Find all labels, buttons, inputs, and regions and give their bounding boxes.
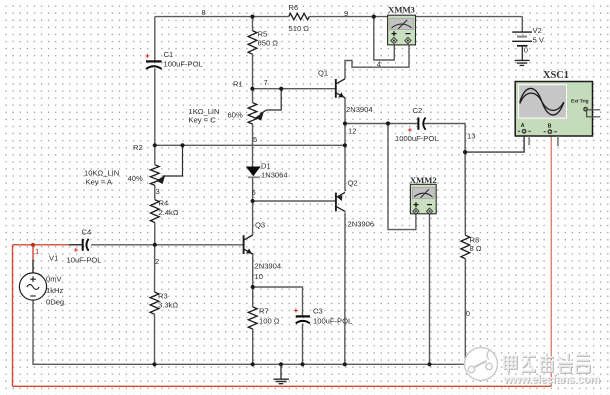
wire C3 bottom to bus [302, 324, 304, 365]
diode D1 1N3064 anode triangle [246, 167, 261, 177]
diode D1 cathode bar [248, 176, 260, 178]
svg-text:650 Ω: 650 Ω [258, 39, 279, 48]
svg-text:R6: R6 [289, 3, 299, 12]
svg-text:V1: V1 [49, 254, 58, 263]
wire node 13 to scope A [465, 134, 524, 153]
wire Q3 collector up to node 6 [252, 201, 254, 235]
source V1 circle [19, 273, 46, 300]
oscilloscope XSC1 channel A ground pin stub [528, 136, 530, 145]
svg-text:13: 13 [467, 132, 475, 141]
wire V2 top lead [521, 17, 523, 32]
oscilloscope XSC1 trace small [520, 93, 564, 110]
svg-text:1kHz: 1kHz [46, 286, 64, 295]
oscilloscope XSC1 ext trig stubs [586, 110, 601, 117]
battery V2 long plate 1 [512, 31, 532, 33]
multimeter XMM2 body [410, 184, 436, 214]
svg-text:10KΩ_LIN: 10KΩ_LIN [84, 169, 119, 178]
capacitor C4 curved plate [86, 239, 88, 251]
wire red right up to scope B [550, 134, 552, 387]
battery V2 long plate 2 [512, 40, 532, 42]
wire left branch C1 to R2 [154, 68, 156, 165]
transistor Q2 collector lead [337, 207, 345, 212]
wire D1 cathode to node 6 junction [252, 178, 254, 201]
svg-text:6: 6 [252, 188, 256, 197]
wire top rail node 8 right of R6 [309, 16, 522, 18]
potentiometer R2 wiper arrowhead [156, 175, 165, 184]
svg-text:7: 7 [264, 78, 268, 87]
oscilloscope XSC1 screen [519, 85, 567, 118]
oscilloscope XSC1 ext trig terminal [583, 107, 588, 112]
multimeter XMM2 plus terminal [413, 208, 419, 214]
svg-text:2N3904: 2N3904 [346, 105, 373, 114]
wire V1 top lead [32, 259, 34, 273]
wire Q2 collector down to bus [344, 212, 346, 364]
svg-text:100 Ω: 100 Ω [259, 317, 280, 326]
svg-text:C3: C3 [313, 307, 323, 316]
junction bus at R7 [251, 362, 255, 366]
junction bus at C3 [300, 362, 304, 366]
svg-text:1N3064: 1N3064 [261, 171, 288, 180]
oscilloscope XSC1 channel B plus minus marks [544, 131, 557, 133]
svg-text:1: 1 [35, 247, 39, 256]
svg-text:Q2: Q2 [348, 179, 358, 188]
oscilloscope XSC1 channel A terminal [522, 129, 527, 134]
wire left branch x155 top to C1 [154, 17, 156, 62]
wire R5 branch top lead [252, 17, 254, 31]
svg-text:2.4kΩ: 2.4kΩ [159, 208, 179, 217]
source V1 plus mark [30, 276, 36, 282]
wire node 12 rail to C2 [345, 123, 418, 125]
svg-text:10uF-POL: 10uF-POL [67, 256, 102, 265]
wire V1 bottom lead [32, 300, 34, 364]
svg-text:B: B [548, 124, 552, 130]
watermark logo circle [465, 348, 498, 381]
wire node 7 to Q1 base [252, 88, 335, 90]
svg-text:0Deg.: 0Deg. [46, 298, 66, 307]
svg-text:Q3: Q3 [255, 221, 265, 230]
svg-text:Key = C: Key = C [189, 116, 217, 125]
source V1 sine mark [27, 285, 39, 290]
wire XMM2 plus to node 12 [388, 124, 416, 230]
wire top rail node 8 [155, 16, 289, 18]
wire R1 bottom node 5 to D1 [252, 124, 254, 167]
svg-text:2N3906: 2N3906 [348, 220, 375, 229]
wire R2 feedback rail y145 [155, 144, 345, 146]
wire node 10 to C3 [253, 287, 303, 316]
multimeter XMM3 minus terminal [405, 37, 411, 43]
capacitor C2 1000uF-POL flat plate [417, 118, 419, 130]
oscilloscope XSC1 channel A plus minus marks [518, 130, 531, 132]
wire C4 to Q3 base [91, 244, 244, 246]
wire Q1 collector to XMM3 minus [345, 45, 409, 79]
wire red bottom run [13, 385, 552, 387]
junction node on top rail at R5 [250, 15, 254, 19]
junction bus at ground [279, 362, 283, 366]
junction node 2 C4 [153, 243, 157, 247]
ground symbol bottom center bars [274, 379, 289, 384]
wire ground bus [33, 363, 466, 365]
battery V2 short plate 2 [517, 45, 528, 47]
wire node 6 to Q2 base [253, 200, 336, 202]
svg-text:D1: D1 [261, 161, 271, 170]
transistor Q2 2N3906 base bar [335, 193, 337, 212]
svg-text:+: + [145, 51, 150, 60]
svg-text:Q1: Q1 [318, 69, 328, 78]
svg-text:8 Ω: 8 Ω [470, 244, 482, 253]
multimeter XMM3 minus mark [405, 33, 410, 35]
svg-text:8: 8 [202, 8, 206, 17]
junction node 10 [251, 285, 255, 289]
wire R5 to node 7 [252, 54, 254, 102]
resistor R4 2.4k [150, 200, 159, 223]
svg-text:Key = A: Key = A [86, 178, 113, 187]
junction node 6 [251, 199, 255, 203]
svg-text:A: A [521, 123, 525, 129]
capacitor C1 100uF-POL flat plate [146, 60, 162, 62]
junction red node 1 [31, 243, 35, 247]
multimeter XMM2 display [412, 187, 434, 198]
svg-text:R3: R3 [158, 292, 168, 301]
svg-text:12: 12 [348, 127, 356, 136]
svg-text:2: 2 [155, 257, 159, 266]
junction bus at R3 [152, 362, 156, 366]
multimeter XMM2 minus terminal [426, 208, 432, 214]
resistor R6 510 Ohm [289, 13, 310, 19]
svg-text:XMM3: XMM3 [388, 4, 415, 14]
wire node 9 to XMM3 plus [374, 17, 395, 60]
svg-text:100uF-POL: 100uF-POL [164, 59, 203, 68]
transistor Q3 emitter arrowhead [246, 249, 252, 254]
svg-text:4: 4 [377, 59, 381, 68]
oscilloscope XSC1 channel B terminal [548, 129, 553, 134]
svg-text:C4: C4 [82, 228, 92, 237]
svg-text:Ext Trig: Ext Trig [571, 99, 589, 105]
svg-text:R7: R7 [259, 307, 269, 316]
wire XMM2 minus to bus [429, 214, 431, 364]
battery V2 short plate 1 [517, 35, 527, 37]
potentiometer R2 10K_LIN [150, 165, 159, 186]
junction R2 rail left [153, 143, 157, 147]
svg-text:510 Ω: 510 Ω [289, 24, 310, 33]
svg-text:40%: 40% [128, 174, 143, 183]
svg-text:+: + [74, 246, 79, 255]
multimeter XMM2 plus mark [414, 202, 419, 207]
transistor Q3 collector lead [244, 235, 252, 240]
transistor Q3 emitter lead [244, 249, 252, 254]
potentiometer R1 1K_LIN [248, 103, 257, 124]
svg-text:+: + [294, 306, 299, 315]
wire red left side down [12, 245, 14, 386]
svg-text:R5: R5 [258, 30, 268, 39]
resistor R7 100 Ohm [248, 307, 257, 329]
wire Q1 emitter down to node 12 [344, 98, 346, 124]
transistor Q1 emitter lead [337, 93, 346, 98]
multimeter XMM2 minus mark [427, 204, 432, 206]
wire left branch R2 to R4 [154, 185, 156, 199]
multimeter XMM2 needle scale arc [414, 193, 432, 197]
transistor Q3 2N3904 base bar [243, 235, 245, 254]
wire R2 wiper [163, 145, 183, 176]
multimeter XMM3 plus mark [392, 31, 397, 36]
capacitor C3 100uF-POL flat plate [296, 315, 310, 317]
svg-text:R1: R1 [233, 80, 243, 89]
svg-text:60%: 60% [228, 111, 243, 120]
multimeter XMM3 needle scale arc [392, 24, 412, 28]
watermark chinese text shadow [505, 354, 590, 373]
svg-text:5: 5 [253, 135, 257, 144]
source V1 minus mark [30, 295, 36, 297]
svg-text:3: 3 [156, 187, 160, 196]
svg-text:0: 0 [524, 46, 528, 55]
transistor Q1 emitter arrowhead [338, 92, 344, 97]
potentiometer R1 wiper arrowhead [255, 112, 264, 121]
wire Q2 emitter vertical to node 12 [344, 124, 346, 192]
junction bus at XMM2 minus [427, 362, 431, 366]
junction R2 wiper tap [180, 143, 184, 147]
capacitor C2 curved plate [423, 118, 425, 130]
wire V2 to ground [521, 46, 523, 61]
capacitor C3 curved plate [296, 321, 310, 323]
svg-text:www.elecfans.com: www.elecfans.com [503, 374, 600, 386]
svg-text:100uF-POL: 100uF-POL [313, 317, 352, 326]
oscilloscope XSC1 trace large [520, 88, 564, 115]
multimeter XMM3 plus terminal [391, 37, 397, 43]
wire red node 1 V1 to C4 [13, 244, 83, 246]
wire node 13 down to R8 [464, 152, 466, 235]
resistor R3 3.3k [150, 292, 159, 314]
wire Q3 emitter to node 10 [252, 254, 254, 307]
oscilloscope XSC1 body [515, 82, 592, 137]
transistor Q1 2N3904 base bar [335, 79, 337, 98]
capacitor C1 curved plate [146, 66, 162, 69]
junction node 7 [250, 87, 254, 91]
wire left branch R4 to R3 [154, 223, 156, 293]
svg-text:C1: C1 [164, 50, 174, 59]
multimeter XMM3 body [388, 15, 416, 45]
svg-text:1000uF-POL: 1000uF-POL [395, 134, 438, 143]
svg-text:9: 9 [344, 9, 348, 18]
svg-text:3.3kΩ: 3.3kΩ [158, 301, 178, 310]
resistor R8 8 Ohm [461, 235, 470, 259]
junction R2 rail right on node 12 branch [343, 143, 347, 147]
junction XMM2 tap on node 12 [386, 121, 390, 125]
resistor R5 650 Ohm [248, 31, 257, 55]
svg-text:0mV: 0mV [46, 275, 63, 284]
svg-text:C2: C2 [413, 106, 423, 115]
oscilloscope XSC1 channel B ground pin stub [557, 136, 559, 146]
wire R7 bottom to bus [252, 329, 254, 364]
wire R1 wiper from node 7 [260, 89, 281, 114]
ground symbol below V2 [515, 60, 530, 65]
wire left branch R3 to ground bus [154, 314, 156, 364]
wire red V1 stub [32, 245, 34, 260]
capacitor C4 10uF-POL lead [69, 244, 83, 246]
junction R1 wiper tap [279, 87, 283, 91]
ground symbol bottom center stem [280, 364, 282, 379]
wire C2 right to node 13 corner [424, 124, 466, 153]
transistor Q1 collector lead [337, 79, 346, 84]
svg-text:+: + [408, 125, 413, 134]
svg-text:XSC1: XSC1 [543, 70, 569, 81]
svg-text:10: 10 [255, 272, 263, 281]
svg-text:XMM2: XMM2 [410, 175, 437, 185]
multimeter XMM3 needle [398, 20, 407, 29]
svg-text:0: 0 [466, 309, 470, 318]
junction bus at Q2 collector [343, 362, 347, 366]
junction node 12 [343, 121, 347, 125]
multimeter XMM2 needle [421, 189, 430, 198]
transistor Q2 emitter lead [337, 192, 345, 197]
svg-text:V2: V2 [533, 26, 542, 35]
wire R8 bottom to bus [464, 259, 466, 365]
svg-text:R4: R4 [159, 199, 169, 208]
svg-text:5 V: 5 V [533, 36, 545, 45]
watermark chinese text [504, 353, 589, 372]
transistor Q2 emitter arrowhead [337, 195, 343, 201]
junction node 9 [372, 15, 376, 19]
svg-text:R2: R2 [133, 143, 143, 152]
capacitor C4 flat plate [82, 239, 84, 251]
junction node 13 [463, 150, 467, 154]
multimeter XMM3 display [390, 18, 414, 30]
svg-text:2N3904: 2N3904 [255, 262, 282, 271]
